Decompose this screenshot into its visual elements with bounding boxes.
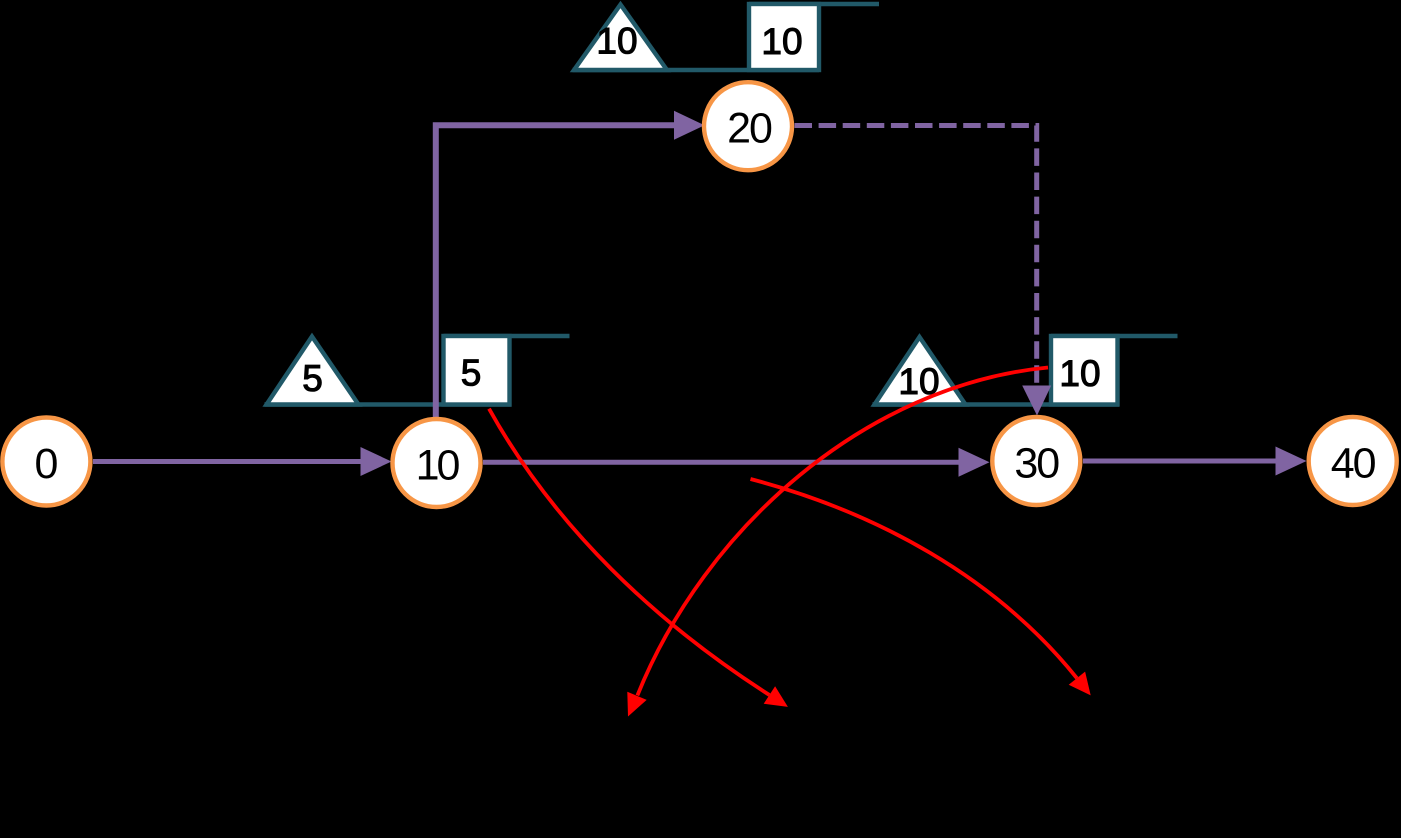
edge 10 to 20: elbow shaft	[436, 125, 675, 419]
svg-text:10: 10	[761, 21, 802, 62]
flag group mid-left: latest-time square	[444, 336, 510, 405]
dummy edge 20 to 30: arrowhead	[1022, 386, 1051, 416]
node 10 circle	[393, 419, 481, 507]
flag group mid-left: base line	[265, 402, 512, 406]
dummy edge 20 to 30: dashed elbow shaft	[795, 126, 1037, 387]
node 30 circle	[992, 417, 1080, 505]
flag group mid-left: top extension line	[444, 334, 570, 338]
edge 30 to 40: shaft	[1083, 459, 1277, 464]
flag group top: top extension line	[749, 2, 879, 6]
svg-text:0: 0	[34, 440, 58, 488]
svg-text:5: 5	[302, 358, 323, 399]
edge 0 to 10: arrowhead	[361, 447, 392, 476]
flag group top: latest-time square	[749, 4, 819, 70]
node 0 circle	[2, 418, 90, 506]
node 20 circle	[704, 82, 792, 170]
svg-text:10: 10	[596, 21, 637, 62]
flag group right: base line	[873, 402, 1120, 406]
red annotation curve B: shaft	[637, 368, 1048, 696]
red annotation curve C: arrowhead	[1069, 672, 1091, 696]
flag group mid-left: earliest-time triangle	[267, 337, 359, 405]
red annotation curve B: arrowhead	[627, 692, 646, 717]
svg-text:30: 30	[1014, 440, 1059, 488]
edge 10 to 20: arrowhead	[674, 111, 705, 140]
svg-text:10: 10	[1059, 353, 1100, 394]
edge 10 to 30: shaft	[483, 460, 960, 465]
red annotation curve A: shaft	[489, 409, 769, 695]
red annotation curve A: arrowhead	[764, 686, 788, 707]
flag group right: top extension line	[1051, 334, 1178, 338]
svg-text:20: 20	[727, 105, 772, 153]
flag group top: earliest-time triangle	[574, 5, 667, 71]
edge 30 to 40: arrowhead	[1276, 447, 1307, 476]
svg-text:40: 40	[1331, 440, 1376, 488]
flag group right: earliest-time triangle	[875, 337, 966, 405]
node 40 circle	[1309, 417, 1397, 505]
red annotation curve C: shaft	[751, 479, 1077, 678]
flag group top: base line	[573, 68, 820, 72]
svg-text:10: 10	[416, 442, 460, 490]
flag group right: latest-time square	[1051, 336, 1118, 405]
svg-text:5: 5	[461, 353, 482, 394]
edge 10 to 30: arrowhead	[959, 448, 990, 477]
edge 0 to 10: shaft	[93, 459, 362, 464]
